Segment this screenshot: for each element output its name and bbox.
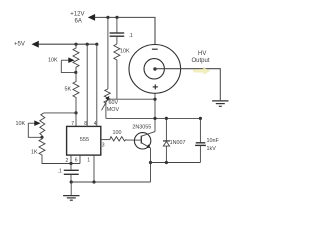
wire pin2 stub bbox=[70, 155, 72, 163]
node +5V rail end bbox=[95, 43, 98, 46]
diode D1 1N007 bbox=[163, 118, 185, 162]
capacitor .1 timing bbox=[58, 164, 79, 183]
wire pin4 drop bbox=[96, 44, 98, 126]
resistor 1K bbox=[31, 137, 45, 158]
svg-text:HV: HV bbox=[198, 51, 206, 57]
node diode bottom junction bbox=[165, 161, 168, 164]
svg-text:1K: 1K bbox=[31, 149, 38, 155]
node cap/ground junction bbox=[70, 180, 73, 183]
svg-text:.1: .1 bbox=[58, 169, 62, 175]
node diode top junction bbox=[165, 117, 168, 120]
svg-text:100: 100 bbox=[113, 130, 122, 136]
svg-text:555: 555 bbox=[80, 137, 89, 143]
svg-text:7: 7 bbox=[71, 121, 74, 127]
wire snubber return bbox=[151, 162, 201, 164]
wire pin6 stub bbox=[79, 155, 81, 163]
svg-text:10nF: 10nF bbox=[207, 138, 220, 144]
ground right bbox=[212, 101, 228, 106]
ground left bbox=[63, 182, 79, 200]
+12V supply arrow bbox=[70, 11, 95, 24]
transformer T1 flyback bbox=[129, 45, 181, 94]
resistor 10K snubber bbox=[114, 44, 130, 99]
wire MOV bottom rail bbox=[106, 117, 200, 119]
node collector/diode junction bbox=[153, 117, 156, 120]
svg-text:3: 3 bbox=[102, 142, 105, 148]
wire pin3 output bbox=[101, 139, 110, 141]
svg-text:+5V: +5V bbox=[14, 42, 25, 48]
potentiometer 10K upper bbox=[48, 44, 79, 72]
svg-text:+12V: +12V bbox=[70, 11, 84, 17]
svg-text:1kV: 1kV bbox=[207, 146, 217, 152]
capacitor .1 snubber bbox=[110, 17, 133, 44]
wire MOV top to collector bbox=[108, 98, 155, 100]
node +5V/pot junction bbox=[74, 43, 77, 46]
resistor 5K bbox=[65, 72, 80, 113]
svg-text:5K: 5K bbox=[65, 87, 72, 93]
svg-text:1N007: 1N007 bbox=[170, 140, 186, 146]
wire +5V rail bbox=[39, 43, 97, 45]
wire 1K to pin2 bbox=[42, 158, 80, 164]
svg-text:10K: 10K bbox=[120, 48, 130, 54]
wire pin7 drop bbox=[75, 113, 77, 127]
transistor Q1 2N3055 bbox=[132, 125, 155, 149]
node pin1/return junction bbox=[92, 180, 95, 183]
svg-text:.1: .1 bbox=[129, 33, 133, 39]
resistor 100 bbox=[110, 130, 135, 141]
varistor 60V MOV bbox=[102, 17, 120, 118]
node collector/MOV junction bbox=[153, 98, 156, 101]
node +12V/snubber junction bbox=[115, 16, 118, 19]
svg-text:60V: 60V bbox=[109, 100, 119, 106]
wire HV output bbox=[155, 69, 220, 101]
wire emitter drop bbox=[149, 148, 151, 182]
wire emitter return bbox=[71, 181, 150, 183]
node +5V/pin8 junction bbox=[86, 43, 89, 46]
node +12V/MOV junction bbox=[106, 16, 109, 19]
wire flyback bottom lead bbox=[154, 93, 156, 132]
IC U1 555 timer bbox=[67, 126, 101, 155]
wire +12V rail bbox=[95, 17, 155, 44]
wire pin1 drop bbox=[93, 155, 95, 182]
node pot2 wiper tie bbox=[40, 136, 43, 139]
node pin2/cap junction bbox=[69, 162, 72, 165]
svg-text:Output: Output bbox=[192, 58, 210, 64]
wire pot2 feed bbox=[44, 112, 76, 114]
capacitor 10nF 1kV bbox=[195, 118, 219, 162]
wire pin8 drop bbox=[86, 44, 88, 126]
HV Output label bbox=[192, 51, 210, 64]
node flyback center tap bbox=[153, 67, 156, 70]
svg-text:1: 1 bbox=[87, 157, 90, 163]
svg-text:10K: 10K bbox=[48, 58, 58, 64]
svg-text:2N3055: 2N3055 bbox=[132, 125, 151, 131]
cursor arrow highlight bbox=[193, 67, 210, 74]
node pin7/pot2 junction bbox=[74, 111, 77, 114]
svg-text:MOV: MOV bbox=[107, 107, 120, 113]
svg-text:6: 6 bbox=[75, 157, 78, 163]
svg-text:6A: 6A bbox=[75, 19, 82, 25]
+5V supply arrow bbox=[14, 41, 39, 48]
node cap top junction bbox=[199, 117, 202, 120]
potentiometer 10K lower bbox=[16, 113, 45, 137]
svg-text:2: 2 bbox=[66, 158, 69, 164]
node pot wiper tie bbox=[74, 71, 77, 74]
node emitter/snub return junction bbox=[149, 161, 152, 164]
svg-text:10K: 10K bbox=[16, 121, 26, 127]
